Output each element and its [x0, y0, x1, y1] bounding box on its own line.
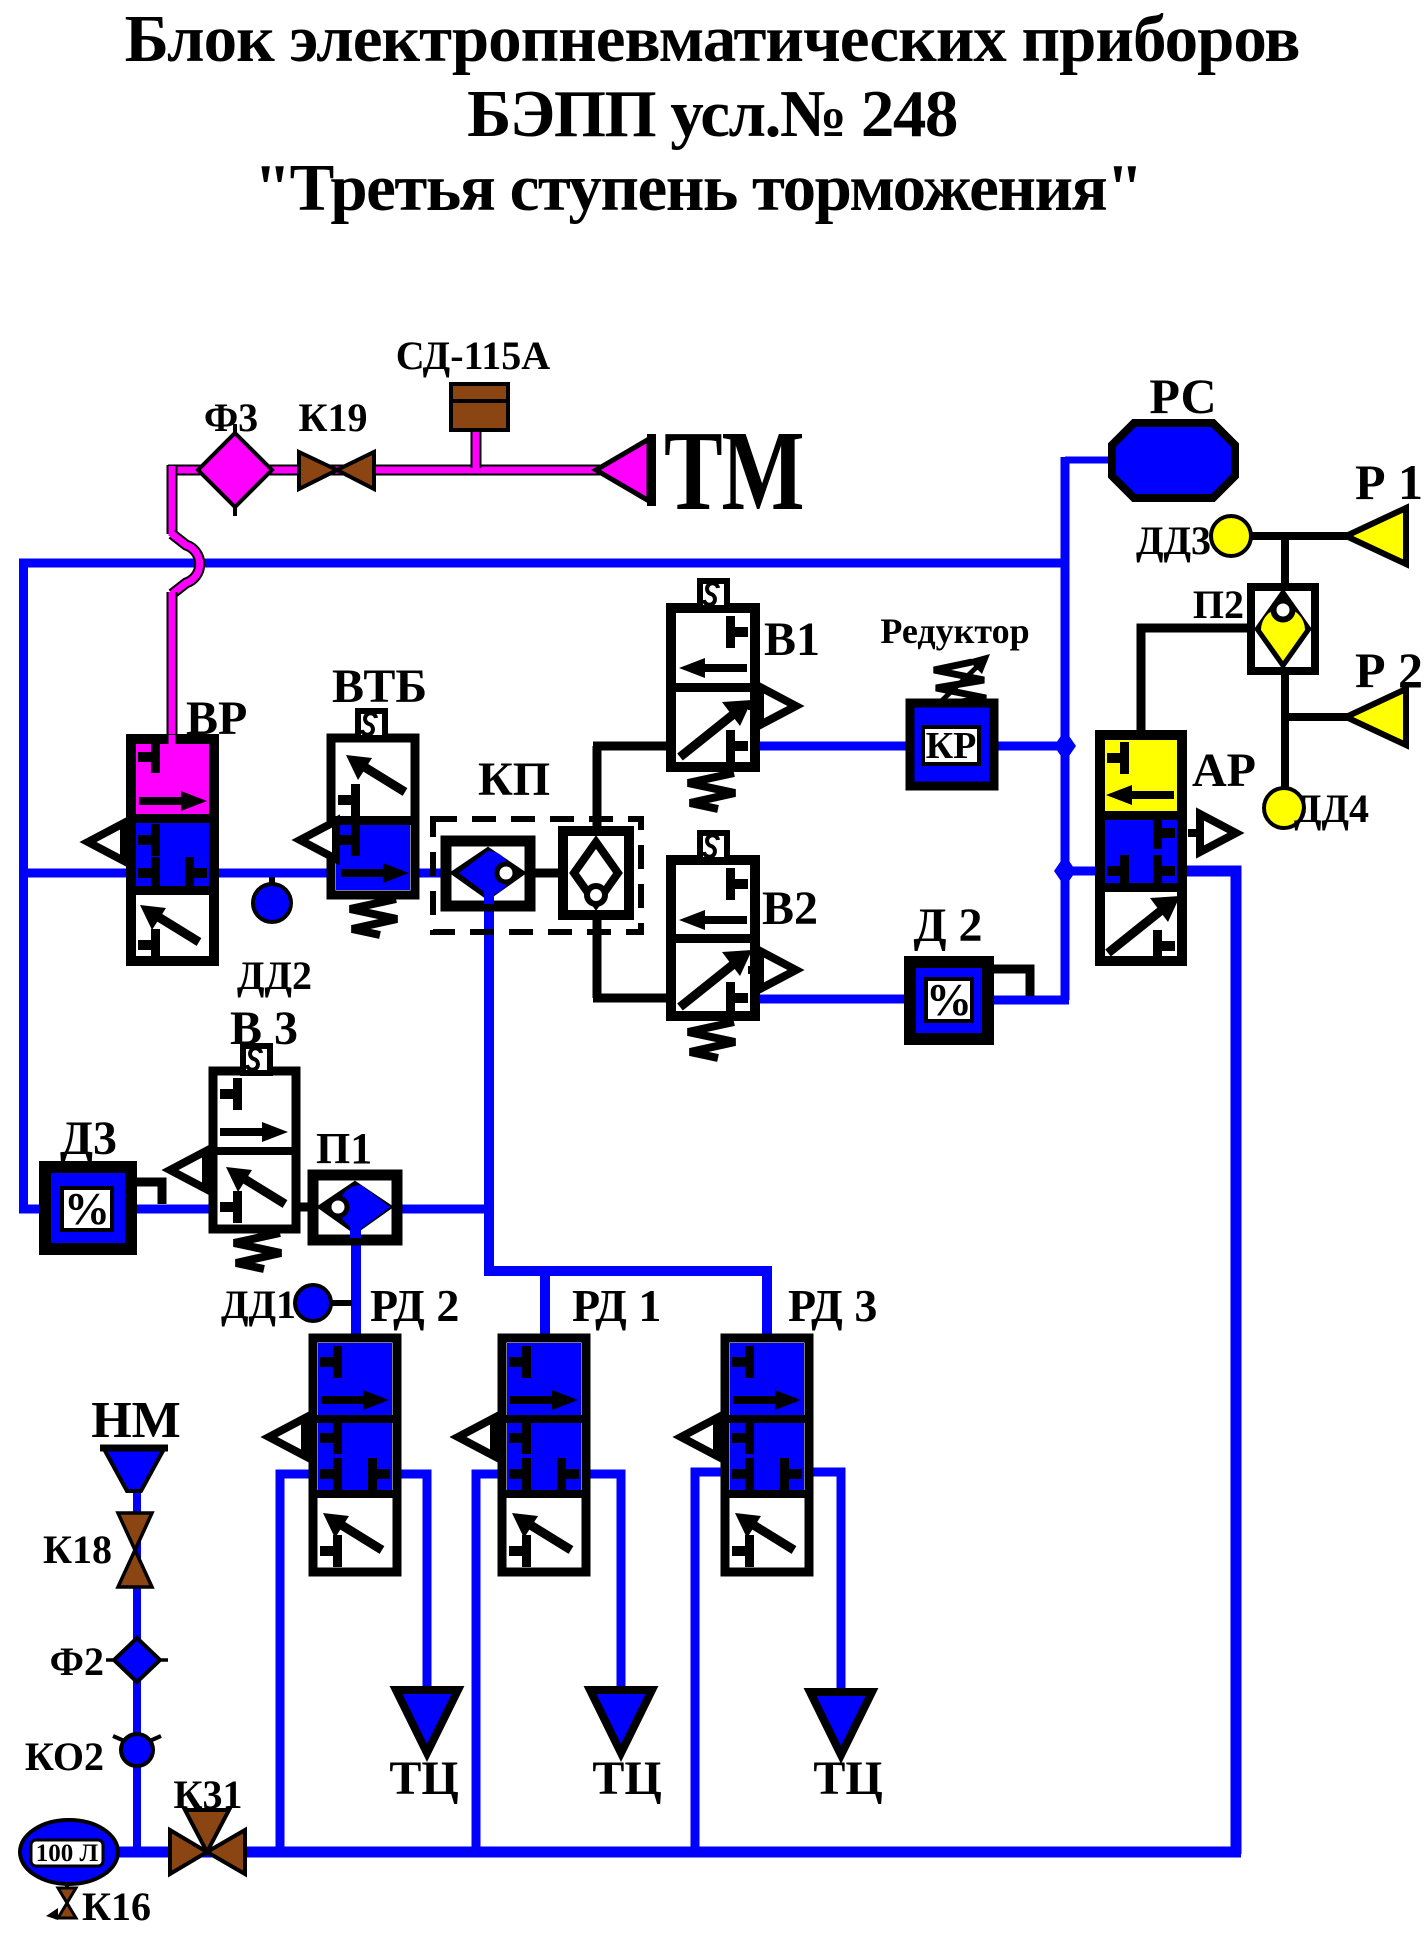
wire left vertical — [19, 559, 28, 1213]
wire V2 input — [593, 994, 673, 1003]
svg-text:АР: АР — [1192, 744, 1256, 797]
label TM — [664, 408, 805, 535]
reservoir RS — [1112, 423, 1235, 498]
VR T bottom-right — [185, 857, 207, 889]
wire RD3 to TC — [809, 1472, 841, 1696]
reducer spring with arrow — [932, 654, 990, 710]
pressure relay RD1 valve — [458, 1338, 586, 1572]
svg-text:%: % — [64, 1183, 110, 1234]
AR bottom diagonal arrow — [1108, 896, 1180, 953]
svg-text:ТМ: ТМ — [664, 408, 805, 535]
pressure relay RD2 valve — [269, 1338, 397, 1572]
node junction KR-main — [1054, 730, 1076, 762]
VTB spring — [350, 899, 397, 935]
VTB exhaust left — [300, 821, 346, 859]
wire NM chain — [133, 1486, 141, 1852]
svg-text:ТЦ: ТЦ — [592, 1752, 661, 1805]
svg-text:РД 1: РД 1 — [572, 1280, 661, 1331]
svg-text:КО2: КО2 — [25, 1734, 104, 1779]
VR bottom T — [138, 929, 160, 961]
V2 diagonal arrow bottom — [680, 950, 752, 1007]
V1 T bottom-right — [726, 730, 748, 762]
valve K16 — [46, 1884, 76, 1920]
V2 T top-right — [726, 868, 748, 900]
svg-text:КР: КР — [926, 725, 977, 767]
V1 exhaust right — [748, 687, 796, 725]
V3 spring — [234, 1233, 281, 1269]
wire B2-D2 — [755, 995, 910, 1004]
svg-text:П2: П2 — [1193, 582, 1244, 627]
VTB top diagonal arrow — [346, 755, 405, 792]
wire magenta hop over blue line — [172, 534, 200, 594]
V3 exhaust left — [170, 1151, 216, 1189]
wire D2 bypass bracket — [990, 969, 1030, 996]
svg-text:%: % — [926, 974, 972, 1025]
VTB arrow right to KP — [341, 863, 409, 883]
svg-text:В 3: В 3 — [230, 1002, 298, 1055]
repeater R2 — [1346, 689, 1406, 745]
svg-text:БЭПП усл.№ 248: БЭПП усл.№ 248 — [467, 77, 957, 151]
V3 diagonal arrow bottom — [226, 1167, 285, 1204]
svg-text:СД-115А: СД-115А — [396, 333, 551, 378]
svg-text:Д3: Д3 — [60, 1112, 117, 1165]
air distributor VR valve body — [131, 739, 214, 961]
svg-text:Д 2: Д 2 — [913, 899, 982, 952]
VR T bottom-left — [138, 857, 160, 889]
VR bottom diagonal arrow — [140, 905, 199, 942]
svg-text:Редуктор: Редуктор — [880, 611, 1029, 651]
AR T bottom-left — [1107, 855, 1129, 887]
reservoir 100L tank — [20, 1820, 118, 1884]
wire magenta stub into VR — [169, 735, 176, 749]
wire V1 input — [593, 742, 673, 751]
svg-text:Р 1: Р 1 — [1355, 454, 1423, 510]
TC arrow 2 — [590, 1690, 652, 1753]
VTB solenoid — [358, 711, 385, 738]
V1 T top-right — [726, 616, 748, 648]
shuttle valve P2 — [1251, 587, 1315, 671]
wire P2 bottom to DD4 — [1281, 666, 1289, 789]
svg-text:ДД3: ДД3 — [1136, 518, 1211, 563]
solenoid valve V1 body — [671, 608, 755, 767]
TC arrow 1 — [396, 1690, 458, 1753]
pressure sensor SD-115A — [451, 384, 508, 430]
node junction AR-main — [1054, 855, 1076, 887]
AR T mid-right to exhaust — [1153, 817, 1175, 849]
svg-text:Ф2: Ф2 — [50, 1639, 104, 1684]
svg-text:ДД1: ДД1 — [221, 1282, 296, 1327]
wire RD2 left drop — [280, 1474, 313, 1852]
filter F2 — [106, 1638, 168, 1682]
valve K18 — [118, 1513, 152, 1587]
wire top feed line — [19, 559, 1065, 568]
V1 diagonal arrow bottom — [680, 700, 752, 757]
AR bottom T right — [1153, 930, 1175, 962]
wire drop to P2 top — [1281, 536, 1289, 592]
wire SD-115A stub — [471, 430, 482, 468]
svg-text:К16: К16 — [82, 1884, 151, 1929]
wire mid line to KP — [19, 869, 480, 878]
sensor DD3 — [1211, 516, 1251, 556]
svg-text:ТЦ: ТЦ — [389, 1752, 458, 1805]
AR exhaust right — [1188, 814, 1236, 852]
V3 T bottom-left — [220, 1191, 242, 1223]
sensor DD4 — [1264, 788, 1304, 828]
wire V3 to P1 — [292, 1203, 318, 1212]
svg-text:КП: КП — [478, 753, 550, 806]
svg-text:В1: В1 — [764, 613, 820, 666]
KP valve — [446, 841, 530, 906]
pressure relay RD3 valve — [681, 1338, 809, 1572]
svg-text:К19: К19 — [298, 395, 367, 440]
wire RD1 to TC — [586, 1474, 621, 1694]
shuttle valve P1 — [313, 1175, 397, 1240]
svg-text:Блок электропневматических при: Блок электропневматических приборов — [125, 2, 1300, 76]
wire RD1 top stem — [540, 1271, 550, 1340]
brake valve VTB body — [331, 738, 415, 895]
wire bottom bus — [110, 1847, 1241, 1858]
wire magenta vertical lower to VR — [167, 592, 178, 744]
solenoid valve V2 body — [671, 860, 755, 1016]
wire main vertical right — [1061, 457, 1070, 1000]
V1 solenoid — [700, 581, 727, 608]
wire TM magenta line — [168, 430, 600, 744]
V2 exhaust right — [748, 951, 796, 989]
wire AR output down — [1180, 871, 1236, 1854]
V2 spring — [688, 1022, 735, 1058]
svg-text:ДД2: ДД2 — [237, 953, 312, 998]
svg-text:Р 2: Р 2 — [1355, 642, 1423, 698]
svg-text:Ф3: Ф3 — [204, 395, 258, 440]
sensor DD1 — [295, 1285, 352, 1321]
AR T bottom-right — [1153, 855, 1175, 887]
wire RD1 left drop — [476, 1474, 502, 1852]
valve K19 — [299, 452, 374, 489]
VR T mid-left — [138, 824, 160, 856]
V2 solenoid — [700, 833, 727, 860]
svg-text:П1: П1 — [316, 1124, 372, 1173]
solenoid valve V3 body — [213, 1071, 296, 1229]
svg-text:ДД4: ДД4 — [1294, 786, 1369, 831]
svg-text:В2: В2 — [762, 882, 818, 935]
V2 T bottom-right — [726, 982, 748, 1014]
wire D2-main — [988, 996, 1069, 1005]
wire D3 line left — [19, 1205, 50, 1214]
V3 arrow right — [220, 1122, 288, 1142]
AR T top-left — [1107, 742, 1129, 774]
TC arrow 3 — [810, 1692, 872, 1755]
wire P1 output — [394, 1205, 494, 1214]
svg-text:РД 3: РД 3 — [788, 1280, 877, 1331]
AR arrow left yellow section — [1106, 785, 1174, 805]
wire KP down and to RD1 RD3 — [489, 900, 767, 1340]
wire B1-KR-main — [755, 742, 1065, 751]
svg-text:К18: К18 — [43, 1527, 112, 1572]
svg-text:"Третья ступень торможения": "Третья ступень торможения" — [254, 151, 1142, 225]
wire branch to R2 — [1281, 713, 1348, 721]
check valve KO2 — [113, 1734, 161, 1766]
shuttle valve KP dashed box — [433, 819, 641, 932]
wire RD3 left drop — [695, 1472, 725, 1852]
shuttle valve (check) body — [563, 831, 629, 915]
svg-text:100 Л: 100 Л — [36, 1840, 99, 1867]
wire KP to shuttle — [528, 869, 565, 878]
TM horn — [596, 434, 656, 506]
V1 arrow left top section — [679, 658, 747, 678]
wire AR input — [1069, 867, 1102, 876]
wire shuttle to V1 — [593, 746, 602, 836]
svg-text:ВТБ: ВТБ — [332, 660, 427, 713]
V3 solenoid — [243, 1046, 270, 1073]
wire P1 bottom to RD2 — [351, 1236, 361, 1340]
V1 spring — [688, 773, 735, 809]
throttle D3 — [45, 1167, 162, 1249]
V2 arrow left top section — [679, 910, 747, 930]
svg-text:ВР: ВР — [186, 692, 247, 745]
wire D3 to V3 — [126, 1205, 216, 1214]
wire RD2 to TC — [397, 1474, 427, 1694]
svg-text:ТЦ: ТЦ — [813, 1752, 882, 1805]
svg-text:РД 2: РД 2 — [370, 1280, 459, 1331]
VTB T left of top section — [338, 784, 360, 816]
VR port T top-left — [138, 741, 160, 773]
wire magenta vertical upper — [167, 465, 178, 534]
NM funnel — [100, 1448, 168, 1491]
sensor DD2 — [253, 877, 291, 922]
svg-text:РС: РС — [1149, 368, 1216, 424]
throttle D2 — [910, 962, 988, 1039]
svg-text:К31: К31 — [173, 1772, 242, 1817]
relay valve AR body — [1100, 735, 1182, 961]
filter F3 — [198, 424, 272, 516]
svg-text:НМ: НМ — [91, 1392, 181, 1449]
VTB T left of bottom section — [338, 824, 360, 856]
wire RS stub — [1065, 457, 1114, 464]
VR exhaust left — [88, 823, 134, 861]
wire shuttle to V2 — [593, 910, 602, 998]
wire DD3 to R1 — [1250, 532, 1348, 540]
VR arrow right in magenta section — [139, 791, 207, 811]
wire P2 to AR top — [1141, 628, 1253, 740]
pressure reducer KR — [910, 703, 994, 786]
valve K31 — [170, 1810, 245, 1874]
repeater R1 — [1346, 508, 1406, 564]
V3 T top-left — [220, 1078, 242, 1110]
